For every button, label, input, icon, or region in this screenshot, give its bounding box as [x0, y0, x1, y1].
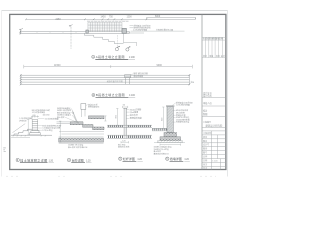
label 3 [16, 157, 54, 162]
band joint ticks strip1 [37, 32, 76, 34]
title block lower table [202, 131, 226, 170]
ground hatch ticks detail3 [13, 135, 46, 136]
left dim detail4 [59, 121, 61, 142]
left dim detail3 [27, 120, 29, 136]
upper platform slab detail4 [89, 116, 105, 119]
dimension text strip1 [56, 16, 161, 21]
ground line detail3 [11, 134, 52, 136]
footing widening courses detail3 [30, 131, 41, 135]
elevation flag at band1 left end [20, 28, 24, 30]
lower table text [203, 131, 218, 170]
ground line left detail6 [152, 127, 167, 129]
bedding layer detail6 [158, 141, 183, 143]
bottom text detail6 [154, 145, 172, 156]
svg-text:11500: 11500 [54, 64, 61, 67]
wall column detail3 [32, 120, 38, 131]
wall body detail6 [167, 107, 173, 133]
trim line left [1, 11, 3, 177]
pier block strip1 [122, 28, 126, 33]
label 5 [119, 156, 143, 161]
svg-text:1:100: 1:100 [129, 57, 135, 59]
coping band detail5 [107, 124, 152, 126]
dim ticks strip1 [25, 18, 195, 21]
svg-text:1200: 1200 [127, 16, 133, 18]
stepped walkway slab detail4 [70, 122, 104, 130]
footing band detail5 [107, 134, 152, 136]
trim line right [227, 11, 229, 177]
elevation flag marker strip1 [69, 25, 72, 27]
post detail5 [123, 108, 127, 138]
svg-text:A段挡土墙之立面图: A段挡土墙之立面图 [96, 54, 125, 59]
bottom dim detail6 [160, 144, 181, 146]
dimension text strip2 [54, 64, 162, 67]
end ticks strip2 [20, 74, 191, 85]
top annotation text detail3 [32, 108, 50, 114]
right leader rows detail6 [176, 108, 190, 124]
svg-text:B段挡土墙之立面图: B段挡土墙之立面图 [96, 92, 125, 97]
sheet thick border [10, 14, 226, 169]
bracket lines below pier [124, 33, 145, 46]
left dim detail6 [162, 107, 164, 128]
end ticks strip1 [19, 31, 21, 35]
trim line top [2, 10, 228, 12]
stray mark outside left border [3, 148, 6, 152]
svg-text:900 900 900 900 900 900 900 90: 900 900 900 900 900 900 900 900 900 900 … [87, 21, 128, 23]
svg-text:2250: 2250 [56, 19, 62, 21]
title block left divider [201, 14, 203, 169]
svg-text:1:20: 1:20 [49, 160, 54, 162]
svg-text:1:20: 1:20 [137, 159, 142, 161]
trim line bottom (faint marks) [6, 175, 20, 177]
box posts detail4 [81, 109, 85, 117]
title block revision table [202, 37, 226, 57]
sheet background [0, 0, 230, 184]
platform end dim detail4 [104, 116, 106, 121]
footing step detail6 [164, 133, 177, 137]
base hatched band detail4 [59, 138, 104, 142]
svg-text:6000: 6000 [155, 16, 161, 18]
svg-text:挡土墙放脚之详图: 挡土墙放脚之详图 [20, 157, 47, 162]
leader lines detail4 [65, 108, 79, 123]
title label 1 [92, 54, 136, 60]
section marker 1 [115, 35, 120, 51]
section line a strip1 [70, 27, 72, 49]
terraced ground steps strip1 [84, 33, 123, 43]
top dim detail3 [31, 115, 39, 117]
parapet box detail4 [81, 104, 86, 110]
steps detail3 [14, 129, 32, 135]
svg-text:120: 120 [33, 115, 36, 117]
svg-text:9000: 9000 [157, 64, 163, 67]
label 4 [67, 157, 91, 162]
title label 2 [92, 92, 136, 98]
lattice verticals strip1 [88, 22, 122, 31]
footing base detail6 [160, 137, 181, 141]
base ground line detail6 [154, 142, 185, 144]
svg-text:建筑设计研究院: 建筑设计研究院 [206, 123, 223, 127]
signature rules [202, 98, 226, 128]
svg-text:1:20: 1:20 [86, 160, 91, 162]
bottom text detail4 [68, 143, 87, 149]
svg-text:100 180: 100 180 [43, 115, 50, 117]
right leader text detail3 [42, 115, 61, 132]
slope line detail3 [13, 124, 26, 133]
dimension line strip1 [26, 18, 196, 20]
box leader text detail4 [88, 102, 99, 108]
svg-text:挡墙详图: 挡墙详图 [170, 156, 182, 161]
sub-base lines detail4 [61, 131, 104, 134]
revision table header text [203, 37, 225, 59]
soil hatch detail6 [153, 129, 167, 131]
svg-text:台阶详图: 台阶详图 [72, 157, 84, 162]
left annotation rows detail4 [57, 106, 74, 119]
wall band strip1 [20, 31, 129, 35]
pier strip2 [125, 74, 133, 84]
svg-text:1450: 1450 [101, 16, 107, 18]
label 6 [166, 156, 190, 161]
wall band strip2 [21, 74, 190, 85]
svg-text:栏杆详图: 栏杆详图 [123, 156, 135, 161]
bottom note detail5 [118, 142, 129, 148]
wall cap detail6 [166, 106, 174, 108]
dimension line strip2 [24, 65, 193, 69]
left dim detail5 [116, 109, 118, 126]
soil base line detail6 [152, 130, 167, 132]
left end pier strip1 [86, 30, 88, 33]
signature text [203, 91, 223, 127]
railing lattice strip1 [88, 22, 122, 30]
right leader rows detail5 [130, 107, 142, 120]
leader annotations right of strip1 [130, 26, 185, 32]
svg-text:1:100: 1:100 [212, 161, 218, 163]
svg-text:1:100: 1:100 [129, 95, 135, 97]
cap leader text detail6 [172, 103, 176, 106]
svg-text:1:20: 1:20 [184, 159, 189, 161]
section marker 2 [126, 46, 131, 51]
left ground lines detail4 [57, 122, 71, 124]
